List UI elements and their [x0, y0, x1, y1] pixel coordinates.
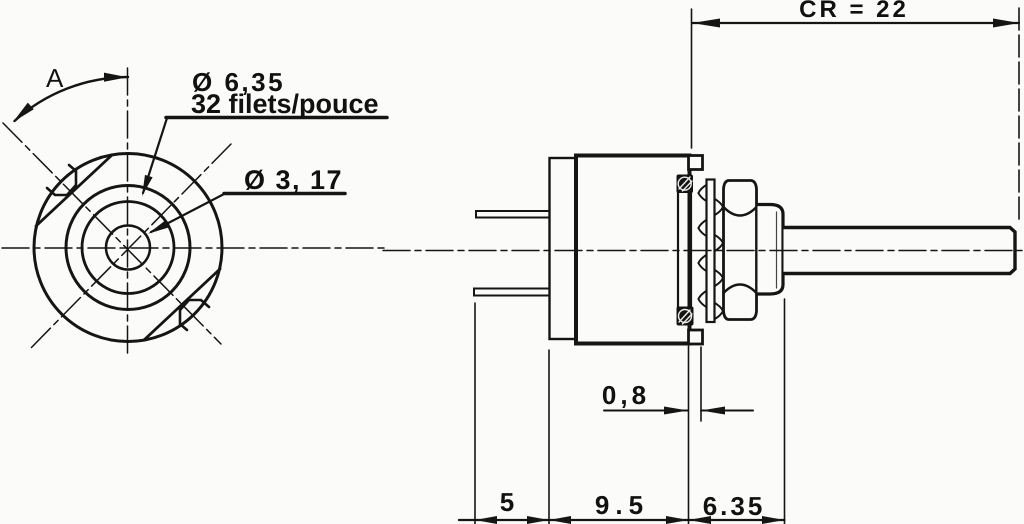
- svg-text:32 filets/pouce: 32 filets/pouce: [191, 89, 379, 119]
- svg-text:9.5: 9.5: [595, 490, 649, 520]
- svg-text:CR = 22: CR = 22: [799, 0, 909, 23]
- svg-text:Ø 3, 17: Ø 3, 17: [244, 165, 343, 195]
- svg-text:A: A: [46, 63, 64, 93]
- svg-text:0,8: 0,8: [602, 380, 650, 410]
- svg-text:6.35: 6.35: [703, 491, 766, 521]
- svg-text:5: 5: [500, 487, 514, 517]
